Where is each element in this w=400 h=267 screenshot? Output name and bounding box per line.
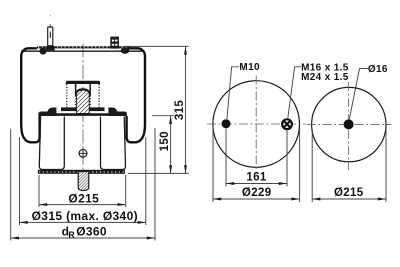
dim 161 bbox=[226, 171, 287, 185]
svg-text:315: 315 bbox=[174, 100, 186, 120]
circle view 2 (dia 215) bbox=[312, 87, 386, 161]
svg-text:R: R bbox=[68, 230, 75, 240]
tower outer dotted walls bbox=[66, 84, 68, 107]
piston bottom plate bbox=[38, 170, 125, 174]
top plate bbox=[21, 47, 144, 51]
svg-text:Ø215: Ø215 bbox=[334, 187, 364, 199]
bolt M10 dot bbox=[222, 119, 231, 128]
air fitting crossed circle bbox=[282, 119, 292, 129]
threaded boss M16/M24 bbox=[110, 37, 119, 49]
bellows outline bbox=[21, 48, 145, 142]
leader M10 bbox=[227, 67, 239, 119]
ext lines dia215 right bbox=[311, 128, 313, 202]
blind nut mark bbox=[78, 149, 87, 158]
leader dia16 bbox=[349, 69, 368, 120]
ext line top plate level bbox=[124, 45, 189, 47]
bellows lobe top roll left (with bead hump) bbox=[38, 108, 56, 117]
leader M16/M24 bbox=[288, 67, 301, 119]
svg-text:Ø315 (max. Ø340): Ø315 (max. Ø340) bbox=[32, 209, 138, 223]
bead crimp right bbox=[121, 47, 130, 53]
bead crimp left bbox=[39, 47, 46, 54]
ext line piston bottom level bbox=[128, 172, 189, 174]
ext lines 161 bbox=[225, 129, 227, 187]
svg-text:Ø16: Ø16 bbox=[368, 64, 388, 75]
circle view 1 (dia 229) bbox=[213, 81, 300, 168]
dim dia215 bottom bbox=[39, 191, 126, 206]
dim dia215 right bbox=[312, 187, 386, 200]
hatched core top cap bbox=[77, 89, 90, 94]
dim 315 bbox=[174, 46, 187, 173]
bellows lobe top roll right (with bead hump) bbox=[108, 108, 127, 117]
svg-text:161: 161 bbox=[246, 171, 266, 183]
stud M10 bbox=[46, 15, 55, 51]
svg-text:Ø215: Ø215 bbox=[68, 191, 99, 205]
centerlines circle 1 bbox=[207, 123, 306, 125]
ext line piston top level bbox=[152, 115, 174, 117]
piston top plate bbox=[39, 113, 126, 116]
svg-text:Ø229: Ø229 bbox=[242, 187, 272, 199]
svg-text:Ø360: Ø360 bbox=[76, 225, 107, 239]
svg-text:M24 x 1.5: M24 x 1.5 bbox=[301, 72, 349, 83]
centerlines circle 2 bbox=[307, 123, 392, 125]
tower inner channel walls bbox=[75, 84, 77, 96]
ext lines dia315 bbox=[19, 137, 21, 225]
centerline left view bbox=[82, 44, 84, 191]
dim 150 bbox=[159, 116, 172, 174]
ext lines dia229 bbox=[212, 127, 214, 202]
svg-text:150: 150 bbox=[159, 131, 171, 151]
center hole dia16 dot bbox=[344, 119, 354, 129]
ext lines dia215 bottom bbox=[38, 175, 40, 207]
svg-text:M10: M10 bbox=[239, 62, 260, 73]
dim dR dia360 bbox=[11, 225, 155, 240]
ext lines dR360 bbox=[10, 129, 12, 241]
dim dia229 bbox=[213, 187, 300, 200]
piston body outer walls bbox=[39, 117, 125, 170]
dim dia315 max340 bbox=[20, 209, 146, 224]
hatched core bbox=[77, 90, 90, 113]
piston tower cap bbox=[66, 81, 100, 84]
piston flange band bbox=[61, 107, 105, 111]
bottom stud (hatched shaft) bbox=[78, 172, 89, 191]
